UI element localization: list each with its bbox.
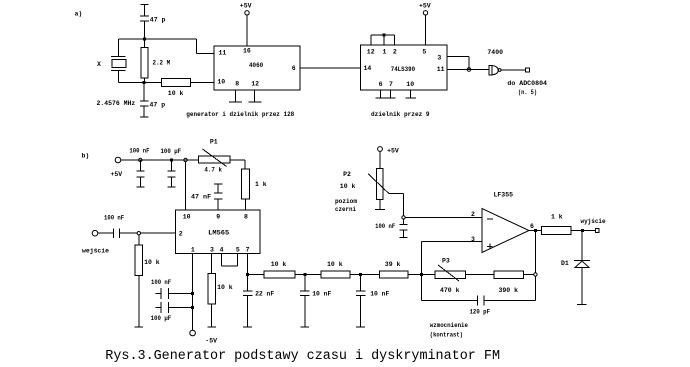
value 120 pF: [470, 309, 491, 316]
value 1 k: [255, 181, 267, 188]
capacitor 47p top: [140, 5, 149, 40]
svg-text:10 k: 10 k: [217, 284, 233, 291]
wire gate output: [501, 69, 525, 71]
svg-text:wzmocnienie: wzmocnienie: [430, 322, 468, 329]
text wyjscie: [581, 218, 606, 225]
label D1: [561, 260, 569, 267]
wire: [248, 274, 264, 276]
value 10 k: [271, 261, 287, 268]
diode D1: [574, 231, 590, 305]
svg-text:generator i dzielnik przez 128: generator i dzielnik przez 128: [186, 111, 294, 118]
capacitor 10nF b: [356, 275, 366, 328]
svg-text:+5V: +5V: [387, 148, 399, 155]
svg-text:10 k: 10 k: [144, 259, 160, 266]
svg-text:2.4576 MHz: 2.4576 MHz: [97, 100, 136, 107]
node junction: [191, 306, 194, 309]
capacitor 47nF: [214, 184, 223, 210]
wire: [571, 230, 596, 232]
resistor 1k: [241, 169, 249, 210]
power +5V: [240, 3, 252, 46]
IC U1 4060: [214, 46, 300, 90]
node junction: [170, 159, 173, 162]
value 4.7 k: [204, 167, 222, 174]
wire to pin 2: [141, 232, 176, 234]
node junction pin1 tie: [383, 34, 386, 37]
svg-text:LF355: LF355: [494, 192, 514, 199]
wire to op-amp pin 3: [421, 242, 482, 275]
text (kontrast): [430, 331, 463, 338]
svg-text:P1: P1: [210, 139, 218, 146]
wire pin 3: [447, 57, 469, 70]
value 10 nF: [370, 291, 389, 298]
svg-text:10: 10: [183, 214, 191, 221]
label P3: [442, 258, 450, 265]
wire: [408, 274, 435, 276]
resistor 10k: [162, 79, 215, 87]
label a): [75, 11, 83, 18]
crystal X: [111, 39, 126, 83]
svg-text:11: 11: [437, 66, 445, 73]
value 390 k: [499, 287, 519, 294]
value 47 nF: [191, 194, 211, 201]
svg-text:100 nF: 100 nF: [129, 148, 149, 155]
ground bar: [243, 326, 252, 328]
svg-text:10 k: 10 k: [340, 183, 356, 190]
svg-text:3: 3: [471, 236, 475, 243]
value 100 nF: [129, 148, 149, 155]
value 10 k: [340, 183, 356, 190]
svg-text:D1: D1: [561, 260, 569, 267]
value 100 uF: [151, 315, 172, 322]
svg-text:8: 8: [235, 81, 239, 88]
svg-text:10 nF: 10 nF: [370, 291, 389, 298]
capacitor 100nF wiper: [400, 219, 408, 237]
terminal -5V: [190, 330, 217, 344]
node junction: [467, 68, 471, 72]
value 10 k: [168, 90, 184, 97]
svg-text:LM565: LM565: [208, 229, 229, 236]
svg-text:4.7 k: 4.7 k: [204, 167, 222, 174]
ground pin 8: [229, 90, 242, 102]
wire: [465, 274, 494, 276]
ground bar: [135, 326, 144, 328]
ground diode: [577, 304, 587, 306]
svg-text:74LS390: 74LS390: [391, 66, 416, 73]
wire feedback vertical: [534, 231, 536, 301]
terminal wejscie: [82, 230, 109, 254]
resistor 2.2M: [141, 39, 148, 83]
svg-text:7400: 7400: [487, 49, 503, 56]
svg-text:-5V: -5V: [205, 337, 217, 344]
svg-text:8: 8: [244, 214, 248, 221]
wire top rail: [119, 38, 197, 40]
wire pin 7: [247, 253, 249, 274]
IC U3 LM565: [176, 210, 260, 253]
node junction: [303, 273, 306, 276]
svg-text:47 p: 47 p: [150, 17, 166, 24]
svg-text:Rys.3.Generator podstawy czasu: Rys.3.Generator podstawy czasu i dyskrym…: [105, 349, 500, 364]
text do ADC0804: [507, 80, 547, 87]
capacitor 100uF pin1: [156, 302, 193, 313]
node junction pin7: [246, 273, 249, 276]
ground pin 6: [375, 90, 386, 98]
value 10 k: [327, 261, 343, 268]
node junction to pin10: [184, 158, 187, 161]
svg-text:12: 12: [367, 49, 375, 56]
svg-text:6: 6: [379, 81, 383, 88]
svg-text:470 k: 470 k: [440, 287, 460, 294]
resistor 390k: [494, 271, 524, 279]
svg-text:wejście: wejście: [82, 247, 109, 254]
svg-text:120 pF: 120 pF: [470, 309, 491, 316]
svg-text:47 p: 47 p: [150, 102, 166, 109]
value 22 nF: [255, 291, 274, 298]
value 10 nF: [312, 291, 331, 298]
svg-text:10: 10: [217, 78, 225, 85]
capacitor 100nF rail: [136, 160, 144, 187]
resistor 10k input: [135, 235, 143, 327]
label b): [82, 153, 90, 160]
potentiometer P2: [368, 147, 389, 210]
svg-text:X: X: [97, 61, 101, 68]
terminal square output: [526, 68, 530, 72]
IC U2 74LS390: [361, 45, 448, 90]
text poziom: [335, 198, 357, 205]
caption: [105, 349, 500, 364]
text wzmocnienie: [430, 322, 468, 329]
resistor 10k pin3: [208, 253, 216, 327]
svg-text:+5V: +5V: [111, 171, 123, 178]
wire: [524, 274, 534, 276]
value 39 k: [385, 261, 401, 268]
svg-text:100 nF: 100 nF: [375, 223, 395, 230]
wire pin 1 to -5V: [192, 253, 194, 330]
text (n. 5): [518, 89, 537, 96]
svg-text:100 nF: 100 nF: [151, 279, 171, 286]
svg-text:dzielnik przez 9: dzielnik przez 9: [371, 111, 430, 118]
wire pins 4-5 tie: [222, 253, 238, 266]
wire: [295, 274, 321, 276]
capacitor 22nF: [243, 275, 253, 328]
capacitor 100nF input: [114, 229, 137, 239]
svg-text:a): a): [75, 11, 83, 18]
wire input: [98, 232, 113, 234]
op-amp U5 LF355: [471, 192, 534, 253]
svg-text:11: 11: [219, 49, 227, 56]
svg-text:7: 7: [389, 81, 393, 88]
svg-text:5: 5: [422, 49, 426, 56]
wire P1 to 1k: [230, 160, 245, 169]
potentiometer P1: [199, 149, 231, 167]
ground pin 12: [249, 90, 262, 102]
svg-text:wyjście: wyjście: [581, 218, 606, 225]
ground pin 10: [405, 90, 415, 98]
ground pin 7: [386, 90, 396, 98]
svg-text:1 k: 1 k: [551, 213, 563, 220]
svg-text:39 k: 39 k: [385, 261, 401, 268]
svg-text:(n. 5): (n. 5): [518, 89, 537, 96]
svg-text:P2: P2: [343, 171, 351, 178]
svg-text:2.2 M: 2.2 M: [153, 60, 171, 67]
svg-text:P3: P3: [442, 258, 450, 265]
svg-text:+5V: +5V: [419, 2, 431, 9]
capacitor 47p bottom: [140, 83, 149, 117]
text generator i dzielnik przez 128: [186, 111, 294, 118]
wire P2 wiper: [389, 194, 403, 216]
svg-text:10: 10: [406, 81, 414, 88]
value 10 k: [144, 259, 160, 266]
svg-text:10 k: 10 k: [168, 90, 184, 97]
wire to pin 10: [185, 162, 187, 210]
svg-text:10 k: 10 k: [327, 261, 343, 268]
capacitor 100uF rail: [168, 160, 176, 187]
value 10 k: [217, 284, 233, 291]
svg-text:3: 3: [437, 54, 441, 61]
resistor 10k a: [264, 271, 295, 278]
svg-text:5: 5: [236, 246, 240, 253]
svg-text:6: 6: [530, 223, 534, 230]
wire bottom rail: [119, 82, 162, 84]
svg-text:12: 12: [251, 81, 259, 88]
resistor 10k b: [321, 271, 350, 278]
capacitor 10nF a: [300, 275, 310, 328]
svg-text:16: 16: [243, 48, 251, 55]
svg-text:6: 6: [292, 65, 296, 72]
node junction wiper: [402, 216, 405, 219]
resistor 1k out: [542, 227, 572, 235]
wire pins 12,1,2 tie bracket: [371, 35, 395, 45]
svg-text:10 nF: 10 nF: [312, 291, 331, 298]
value 2.2 M: [153, 60, 171, 67]
svg-text:47 nF: 47 nF: [191, 194, 211, 201]
node junction: [420, 273, 423, 276]
resistor 39k: [380, 271, 408, 278]
svg-text:4060: 4060: [249, 62, 263, 69]
svg-text:+5V: +5V: [240, 3, 252, 10]
svg-text:10 k: 10 k: [271, 261, 287, 268]
wire to pin 11: [197, 39, 215, 54]
value 100 nF: [375, 223, 395, 230]
wire pin 11 to gate: [447, 69, 489, 71]
svg-text:czerni: czerni: [335, 206, 356, 213]
svg-text:do ADC0804: do ADC0804: [507, 80, 547, 87]
svg-text:390 k: 390 k: [499, 287, 519, 294]
node junction: [191, 292, 194, 295]
wire pin 6 to 74LS390: [300, 67, 361, 69]
svg-text:7: 7: [246, 246, 250, 253]
label P1: [210, 139, 218, 146]
svg-text:poziom: poziom: [335, 198, 357, 205]
potentiometer P3: [435, 265, 466, 281]
svg-text:4: 4: [220, 246, 224, 253]
svg-text:b): b): [82, 153, 90, 160]
svg-text:1: 1: [383, 49, 387, 56]
svg-text:1: 1: [191, 246, 195, 253]
value 470 k: [440, 287, 460, 294]
text dzielnik przez 9: [371, 111, 430, 118]
wire output: [529, 230, 542, 232]
value 2.4576 MHz: [97, 100, 136, 107]
svg-text:100 nF: 100 nF: [104, 215, 124, 222]
svg-text:1 k: 1 k: [255, 181, 267, 188]
svg-text:3: 3: [210, 246, 214, 253]
ground bar: [207, 326, 216, 328]
node junction input: [137, 232, 140, 235]
node junction: [139, 158, 142, 161]
svg-text:(kontrast): (kontrast): [430, 331, 463, 338]
gate U4 7400: [487, 49, 503, 75]
value 100 nF: [104, 215, 124, 222]
terminal +5V b: [111, 157, 123, 178]
svg-text:2: 2: [393, 49, 397, 56]
svg-text:2: 2: [179, 231, 183, 238]
value 47 p: [150, 17, 166, 24]
label X: [97, 61, 101, 68]
node junction: [581, 229, 584, 232]
wire: [350, 274, 379, 276]
capacitor 120pF: [421, 275, 535, 306]
node junction output: [534, 229, 537, 232]
svg-text:100 µF: 100 µF: [151, 315, 172, 322]
value 47 p: [150, 102, 166, 109]
ground bar: [356, 326, 365, 328]
svg-text:2: 2: [471, 211, 475, 218]
node junction: [359, 273, 362, 276]
text czerni: [335, 206, 356, 213]
svg-text:100 µF: 100 µF: [161, 148, 182, 155]
svg-text:9: 9: [216, 214, 220, 221]
node junction feedback: [534, 273, 537, 276]
svg-text:14: 14: [364, 65, 372, 72]
wire to op-amp pin 2: [405, 217, 482, 219]
value 1 k: [551, 213, 563, 220]
svg-text:22 nF: 22 nF: [255, 291, 274, 298]
node junction: [143, 38, 146, 41]
value 100 uF: [161, 148, 182, 155]
power +5V P2: [387, 148, 399, 155]
wire +5V rail: [121, 159, 199, 161]
power +5V pin 5: [419, 2, 431, 45]
terminal square wyjscie: [596, 229, 600, 233]
ground bar: [300, 326, 309, 328]
node junction: [143, 81, 146, 84]
value 100 nF: [151, 279, 171, 286]
capacitor 100nF pin1: [156, 288, 193, 299]
label P2: [343, 171, 351, 178]
